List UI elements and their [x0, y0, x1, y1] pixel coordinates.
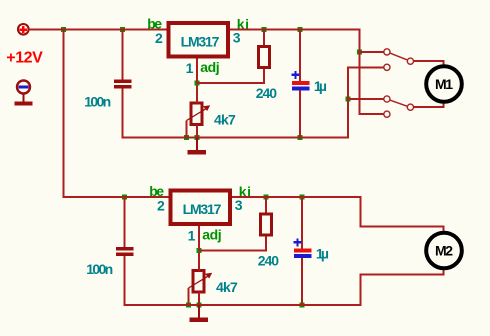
resistor R1 240	[259, 47, 270, 68]
node P2 bottom on rail	[197, 303, 202, 308]
wire P1 bottom lead	[196, 125, 198, 138]
svg-text:LM317: LM317	[183, 201, 222, 217]
wire C3 top lead	[124, 197, 126, 247]
wire adj node to R1 bottom	[197, 69, 264, 83]
node P1 bottom on rail	[195, 135, 200, 140]
wire P1 top lead	[196, 85, 198, 103]
wire P2 bottom lead	[198, 292, 200, 305]
ground symbol circuit 1	[188, 138, 207, 155]
node wiper 2 on rail	[186, 303, 191, 308]
node R1 top	[262, 27, 267, 32]
wire C4 top lead	[301, 197, 303, 249]
ground symbol circuit 2	[190, 305, 209, 322]
wire P1 wiper down	[186, 121, 188, 138]
node R2 top	[264, 195, 269, 200]
wire U1 pin1 to adj node	[196, 58, 198, 83]
svg-text:LM317: LM317	[181, 34, 220, 50]
node C4 top	[300, 195, 305, 200]
svg-text:be: be	[147, 15, 162, 31]
wire S1b common to M1 bottom	[414, 101, 444, 107]
wire U1 pin3 output rail	[230, 30, 384, 115]
capacitor C3 100n	[116, 247, 134, 256]
wire node to S1b throw1	[348, 98, 384, 100]
wire C3 bottom lead to ground rail	[125, 256, 444, 305]
wire left rail down to circuit 2	[64, 30, 169, 198]
node wiper on rail	[184, 135, 189, 140]
op-amp regulator U1 LM317 body	[168, 23, 228, 56]
svg-text:be: be	[149, 183, 164, 199]
wire supply to U1 pin2	[29, 29, 167, 31]
svg-text:100n: 100n	[84, 94, 111, 110]
wire node to S1a throw1	[360, 51, 384, 53]
node adj	[195, 81, 200, 86]
svg-text:2: 2	[157, 198, 165, 214]
node supply rail branch	[61, 27, 66, 32]
wire U2 pin1 to adj node	[198, 226, 200, 251]
wire U2 pin3 output to M2 top	[232, 197, 444, 233]
svg-text:100n: 100n	[86, 261, 113, 277]
svg-text:4k7: 4k7	[216, 279, 238, 295]
svg-text:240: 240	[256, 85, 278, 101]
potentiometer P2 4k7	[189, 271, 213, 293]
node switch feed top	[357, 50, 362, 55]
svg-text:M2: M2	[435, 243, 453, 259]
supply terminal +12V	[18, 24, 29, 35]
svg-text:adj: adj	[202, 226, 221, 242]
wire C1 top lead	[122, 30, 124, 80]
svg-text:1: 1	[186, 60, 194, 76]
op-amp regulator U2 LM317 body	[170, 191, 230, 224]
svg-text:1µ: 1µ	[316, 245, 329, 261]
capacitor C2 1u polarized	[292, 71, 310, 91]
wire R1 top lead	[263, 30, 265, 46]
node C4 bottom on rail	[300, 303, 305, 308]
wire R2 top lead	[265, 197, 267, 213]
motor M1	[426, 66, 462, 102]
wire C4 bottom lead	[301, 258, 303, 305]
wire adj node to R2 bottom	[199, 237, 266, 251]
resistor R2 240	[261, 214, 272, 235]
svg-text:adj: adj	[200, 59, 219, 75]
svg-text:3: 3	[233, 30, 241, 46]
switch S1a	[384, 49, 414, 71]
node C2 top	[298, 27, 303, 32]
svg-text:M1: M1	[435, 76, 453, 92]
svg-text:+12V: +12V	[6, 50, 43, 67]
svg-text:1: 1	[188, 228, 196, 244]
svg-text:4k7: 4k7	[214, 111, 236, 127]
capacitor C1 100n	[114, 80, 132, 89]
potentiometer P1 4k7	[187, 103, 211, 125]
node C2 bottom on rail	[298, 135, 303, 140]
capacitor C4 1u polarized	[294, 238, 312, 258]
wire C2 top lead	[299, 30, 301, 82]
wire P2 wiper down	[188, 288, 190, 305]
node switch ground feed	[346, 97, 351, 102]
wire C1 bottom lead to ground rail	[123, 67, 384, 137]
wire P2 top lead	[198, 253, 200, 271]
svg-text:240: 240	[258, 253, 280, 269]
switch S1b	[384, 96, 414, 117]
node C1 top	[120, 27, 125, 32]
node C3 top	[122, 195, 127, 200]
node adj 2	[197, 248, 202, 253]
svg-text:1µ: 1µ	[314, 78, 327, 94]
svg-text:2: 2	[155, 30, 163, 46]
svg-text:3: 3	[235, 197, 243, 213]
wire C2 bottom lead	[299, 91, 301, 138]
supply negative terminal with ground bar	[15, 81, 33, 106]
motor M2	[426, 233, 462, 269]
wire S1a common to M1 top	[414, 61, 444, 67]
